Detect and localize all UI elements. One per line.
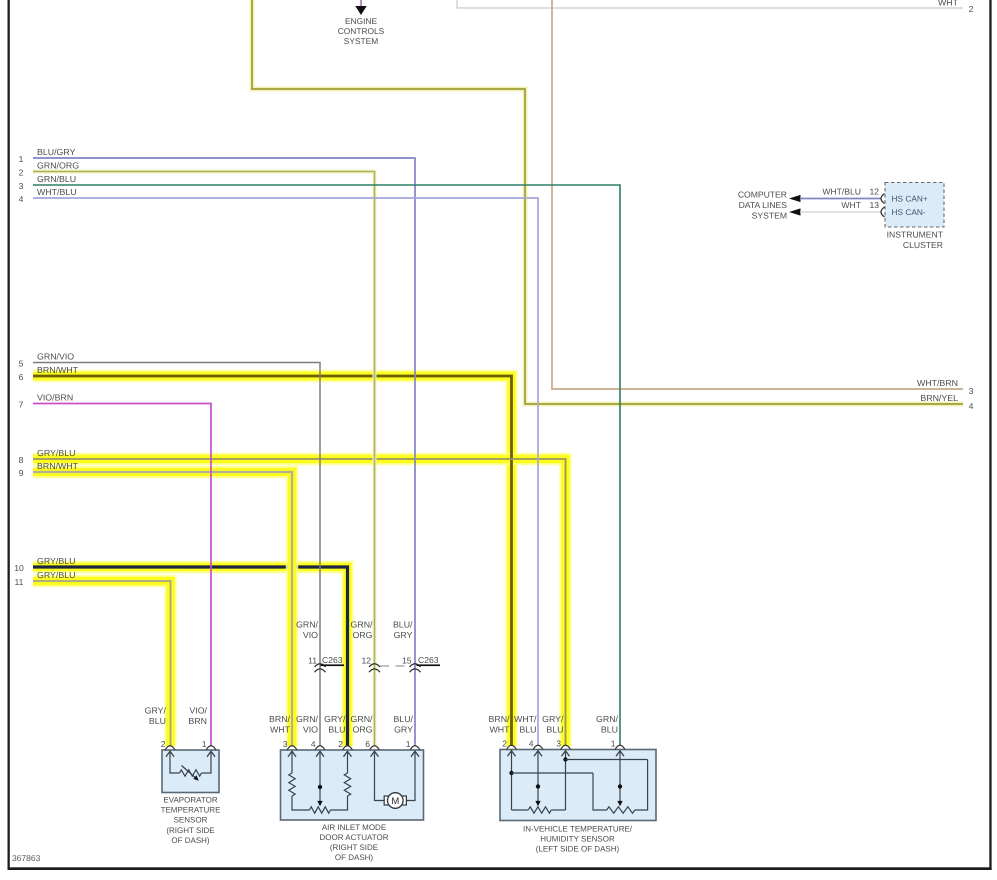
- wire 6 BRN/WHT core: [33, 376, 512, 746]
- svg-text:15: 15: [402, 656, 412, 666]
- svg-text:4: 4: [969, 401, 974, 411]
- pin 3 (right): [969, 386, 974, 396]
- resistor in actuator (pin 3 leg): [289, 751, 310, 810]
- svg-text:M: M: [391, 796, 399, 807]
- svg-text:SYSTEM: SYSTEM: [344, 36, 378, 46]
- svg-text:VIO/BRN: VIO/BRN: [37, 393, 73, 403]
- wire pin 3 leg in-vehicle sensor: [563, 751, 647, 810]
- svg-text:BLU/: BLU/: [393, 620, 413, 630]
- label wire 10 GRY/BLU: [37, 556, 75, 566]
- label air inlet mode door actuator: [319, 823, 388, 862]
- wire 10 GRY/BLU highlight band: [33, 567, 348, 746]
- node ENGINE CONTROLS SYSTEM: [338, 16, 385, 46]
- wire evaporator interior: [170, 751, 211, 773]
- wire 11 GRY/BLU core: [33, 581, 171, 746]
- wire 8 GRY/BLU core: [33, 459, 566, 746]
- label wire 8 GRY/BLU: [37, 448, 75, 458]
- svg-text:2: 2: [161, 739, 166, 749]
- svg-text:(RIGHT SIDE: (RIGHT SIDE: [330, 843, 378, 852]
- label wire 9 BRN/WHT: [37, 461, 79, 471]
- wire 4 WHT/BLU: [33, 187, 538, 746]
- svg-text:DATA LINES: DATA LINES: [739, 200, 788, 210]
- potentiometer 1 wiper from pin 4: [535, 751, 540, 807]
- svg-text:GRY/BLU: GRY/BLU: [37, 448, 75, 458]
- pin 4 door actuator: [311, 739, 325, 757]
- svg-text:2: 2: [19, 168, 24, 178]
- connector at instrument cluster pin 12: [881, 194, 885, 204]
- wire 5 GRN/VIO: [33, 352, 320, 747]
- label VIO/BRN at evaporator sensor: [188, 706, 207, 727]
- svg-text:BLU/: BLU/: [393, 714, 413, 724]
- pin 2 evaporator sensor: [161, 739, 175, 757]
- label BLU/GRY at door actuator: [393, 714, 413, 734]
- wire pin 2 leg in-vehicle sensor: [509, 751, 606, 810]
- svg-text:BRN/: BRN/: [488, 714, 510, 724]
- pin 10 (left): [14, 563, 24, 573]
- svg-text:BRN/WHT: BRN/WHT: [37, 365, 79, 375]
- svg-text:TEMPERATURE: TEMPERATURE: [161, 806, 221, 815]
- connector C263 pin 15: [402, 655, 440, 672]
- pin 9 (left): [19, 468, 24, 478]
- svg-text:2: 2: [502, 739, 507, 749]
- wire 11 GRY/BLU highlight band: [33, 581, 171, 746]
- svg-text:GRY/BLU: GRY/BLU: [37, 556, 75, 566]
- wire 7 VIO/BRN: [33, 393, 211, 747]
- svg-text:10: 10: [14, 563, 24, 573]
- pin 7 (left): [19, 400, 24, 410]
- dashed connector link C263: [380, 665, 409, 667]
- svg-text:GRN/: GRN/: [596, 714, 619, 724]
- component evaporator temperature sensor box: [162, 750, 219, 793]
- pin 1 door actuator: [406, 739, 420, 757]
- border frame left: [8, 0, 10, 870]
- svg-text:3: 3: [556, 739, 561, 749]
- label in-vehicle temperature/humidity sensor: [523, 824, 633, 853]
- svg-text:EVAPORATOR: EVAPORATOR: [163, 795, 217, 804]
- svg-text:6: 6: [19, 372, 24, 382]
- svg-text:AIR INLET MODE: AIR INLET MODE: [322, 823, 386, 832]
- label GRN/VIO above C263: [296, 620, 319, 641]
- svg-text:1: 1: [406, 739, 411, 749]
- svg-text:5: 5: [19, 359, 24, 369]
- svg-text:8: 8: [19, 455, 24, 465]
- svg-text:12: 12: [361, 656, 371, 666]
- svg-text:DOOR ACTUATOR: DOOR ACTUATOR: [319, 833, 388, 842]
- svg-text:GRN/: GRN/: [351, 714, 374, 724]
- label WHT/BLU at in-vehicle sensor: [514, 714, 537, 734]
- svg-text:BRN: BRN: [188, 716, 207, 726]
- svg-text:VIO: VIO: [303, 724, 318, 734]
- connector C263 pin 11: [308, 655, 344, 672]
- svg-text:VIO: VIO: [303, 630, 318, 640]
- label GRY/BLU at in-vehicle sensor: [542, 714, 564, 734]
- potentiometer track in actuator: [310, 807, 331, 813]
- label GRN/ORG at door actuator: [351, 714, 374, 734]
- svg-text:IN-VEHICLE TEMPERATURE/: IN-VEHICLE TEMPERATURE/: [523, 824, 633, 833]
- svg-text:ORG: ORG: [352, 630, 372, 640]
- svg-text:4: 4: [311, 739, 316, 749]
- thermistor in evaporator sensor: [180, 766, 202, 781]
- pin 1 in-vehicle sensor: [611, 739, 625, 757]
- svg-text:GRN/: GRN/: [296, 620, 319, 630]
- svg-text:7: 7: [19, 400, 24, 410]
- svg-text:(RIGHT SIDE: (RIGHT SIDE: [166, 826, 214, 835]
- pin 6 door actuator: [365, 739, 379, 757]
- pin 2 (right): [969, 4, 974, 14]
- svg-text:11: 11: [308, 656, 317, 666]
- svg-text:HS CAN-: HS CAN-: [892, 207, 926, 217]
- wire 6 BRN/WHT highlight band: [33, 376, 512, 746]
- node COMPUTER DATA LINES SYSTEM: [738, 190, 787, 221]
- label INSTRUMENT CLUSTER: [887, 230, 944, 251]
- svg-text:BLU: BLU: [546, 724, 563, 734]
- svg-text:GRY/: GRY/: [542, 714, 564, 724]
- svg-text:GRY: GRY: [394, 724, 413, 734]
- svg-text:OF DASH): OF DASH): [335, 853, 374, 862]
- label GRN/ORG above C263: [351, 620, 374, 641]
- pin 3 in-vehicle sensor: [556, 739, 570, 757]
- arrow to computer data lines (HS CAN-): [789, 208, 801, 215]
- motor M in actuator: [384, 793, 406, 809]
- svg-text:(LEFT SIDE OF DASH): (LEFT SIDE OF DASH): [536, 845, 620, 854]
- label GRY/BLU at evaporator sensor: [145, 706, 167, 727]
- wire 2 WHT (top right): [457, 0, 963, 8]
- label GRN/BLU at in-vehicle sensor: [596, 714, 619, 734]
- svg-text:SENSOR: SENSOR: [174, 816, 208, 825]
- svg-text:CLUSTER: CLUSTER: [903, 240, 943, 250]
- svg-text:GRN/ORG: GRN/ORG: [37, 161, 79, 171]
- border frame right: [989, 0, 991, 870]
- potentiometer 2 track in-vehicle sensor: [607, 807, 635, 813]
- wire 10 GRY/BLU black core: [33, 567, 348, 746]
- wire 9 BRN/WHT highlight band: [33, 472, 292, 746]
- pin 12 instrument cluster: [869, 187, 879, 197]
- pin 2 (left): [19, 168, 24, 178]
- component in-vehicle temperature/humidity sensor box: [500, 750, 656, 821]
- svg-text:WHT: WHT: [270, 724, 291, 734]
- svg-text:BLU/GRY: BLU/GRY: [37, 147, 76, 157]
- svg-text:2: 2: [338, 739, 343, 749]
- svg-text:WHT: WHT: [489, 724, 510, 734]
- wire 3 WHT/BRN: [552, 0, 963, 389]
- svg-text:6: 6: [365, 739, 370, 749]
- svg-text:CONTROLS: CONTROLS: [338, 26, 385, 36]
- connector at instrument cluster pin 13: [881, 207, 885, 217]
- pin 5 (left): [19, 359, 24, 369]
- svg-text:WHT/BRN: WHT/BRN: [917, 378, 958, 388]
- wire 2 GRN/ORG: [33, 161, 375, 747]
- pin 1 evaporator sensor: [202, 739, 216, 757]
- arrow to engine controls system: [355, 6, 366, 15]
- svg-text:9: 9: [19, 468, 24, 478]
- pin 4 in-vehicle sensor: [529, 739, 543, 757]
- svg-text:HS CAN+: HS CAN+: [892, 194, 928, 204]
- svg-text:2: 2: [969, 4, 974, 14]
- instrument cluster box: [885, 183, 944, 228]
- resistor in actuator (pin 2 leg): [330, 751, 350, 810]
- svg-text:WHT/BLU: WHT/BLU: [37, 187, 77, 197]
- svg-text:12: 12: [869, 187, 879, 197]
- svg-text:BLU: BLU: [328, 724, 345, 734]
- pin 2 in-vehicle sensor: [502, 739, 516, 757]
- svg-text:3: 3: [283, 739, 288, 749]
- pin 6 (left): [19, 372, 24, 382]
- svg-text:1: 1: [611, 739, 616, 749]
- svg-text:4: 4: [529, 739, 534, 749]
- pin 1 (left): [19, 154, 24, 164]
- potentiometer 2 wiper from pin 1: [617, 751, 622, 807]
- label GRY/BLU at door actuator: [324, 714, 346, 734]
- wire 3 GRN/BLU: [33, 174, 620, 746]
- svg-text:1: 1: [19, 154, 24, 164]
- svg-text:WHT: WHT: [841, 200, 861, 210]
- svg-text:GRY/: GRY/: [145, 706, 167, 716]
- pin 8 (left): [19, 455, 24, 465]
- svg-text:3: 3: [969, 386, 974, 396]
- svg-text:WHT/BLU: WHT/BLU: [822, 187, 861, 197]
- border frame bottom: [8, 867, 992, 870]
- svg-text:WHT/: WHT/: [514, 714, 537, 724]
- wire pin 6 to motor: [375, 751, 385, 800]
- svg-text:BRN/WHT: BRN/WHT: [37, 461, 79, 471]
- pin 13 instrument cluster: [869, 200, 879, 210]
- label evaporator temperature sensor: [161, 795, 221, 845]
- svg-text:367863: 367863: [12, 853, 41, 863]
- svg-text:SYSTEM: SYSTEM: [752, 211, 787, 221]
- label wire 11 GRY/BLU: [37, 570, 75, 580]
- wire WHT/BLU (HS CAN+): [800, 187, 881, 199]
- arrow to computer data lines (HS CAN+): [789, 195, 801, 202]
- wire 8 GRY/BLU highlight band: [33, 459, 566, 746]
- wire 9 BRN/WHT core: [33, 472, 292, 746]
- potentiometer 1 track in-vehicle sensor: [512, 807, 566, 813]
- pin 2 door actuator: [338, 739, 352, 757]
- label BRN/WHT at door actuator: [269, 714, 291, 734]
- pin 4 (right): [969, 401, 974, 411]
- label wire 6 BRN/WHT: [37, 365, 79, 375]
- pin 11 (left): [15, 577, 24, 587]
- svg-text:1: 1: [202, 739, 207, 749]
- svg-text:OF DASH): OF DASH): [171, 836, 210, 845]
- svg-text:GRY/BLU: GRY/BLU: [37, 570, 75, 580]
- svg-text:13: 13: [869, 200, 879, 210]
- pin 3 door actuator: [283, 739, 297, 757]
- svg-text:BLU: BLU: [149, 716, 166, 726]
- label diagram number 367863: [12, 853, 41, 863]
- connector C263 pin 12: [361, 656, 380, 673]
- svg-text:VIO/: VIO/: [189, 706, 207, 716]
- pin 3 (left): [19, 181, 24, 191]
- svg-text:GRN/: GRN/: [296, 714, 319, 724]
- svg-text:BRN/: BRN/: [269, 714, 291, 724]
- svg-text:GRN/BLU: GRN/BLU: [37, 174, 76, 184]
- label GRN/VIO at door actuator: [296, 714, 319, 734]
- svg-text:C263: C263: [322, 655, 343, 665]
- svg-text:GRY/: GRY/: [324, 714, 346, 724]
- potentiometer wiper from pin 4: [317, 751, 322, 806]
- svg-text:GRY: GRY: [394, 630, 413, 640]
- svg-text:HUMIDITY SENSOR: HUMIDITY SENSOR: [540, 835, 615, 844]
- pin 4 (left): [19, 194, 24, 204]
- label BRN/WHT at in-vehicle sensor: [488, 714, 510, 734]
- wire 1 BLU/GRY: [33, 147, 415, 746]
- svg-text:ENGINE: ENGINE: [345, 16, 378, 26]
- label BLU/GRY above C263: [393, 620, 413, 641]
- svg-text:ORG: ORG: [352, 724, 372, 734]
- wire to engine controls system (VIO stub): [360, 0, 362, 7]
- wire pin 1 to motor: [406, 751, 415, 800]
- svg-text:BLU: BLU: [519, 724, 536, 734]
- svg-text:11: 11: [15, 577, 24, 587]
- svg-text:3: 3: [19, 181, 24, 191]
- svg-text:4: 4: [19, 194, 24, 204]
- wire WHT (HS CAN-): [800, 200, 881, 212]
- svg-text:BLU: BLU: [601, 724, 618, 734]
- svg-text:WHT: WHT: [938, 0, 959, 8]
- svg-text:GRN/VIO: GRN/VIO: [37, 352, 74, 362]
- wire 4 BRN/YEL: [252, 0, 963, 404]
- svg-text:GRN/: GRN/: [351, 620, 374, 630]
- svg-text:INSTRUMENT: INSTRUMENT: [887, 230, 944, 240]
- svg-text:C263: C263: [418, 655, 439, 665]
- svg-text:COMPUTER: COMPUTER: [738, 190, 787, 200]
- svg-text:BRN/YEL: BRN/YEL: [920, 393, 958, 403]
- component air inlet mode door actuator box: [281, 750, 424, 820]
